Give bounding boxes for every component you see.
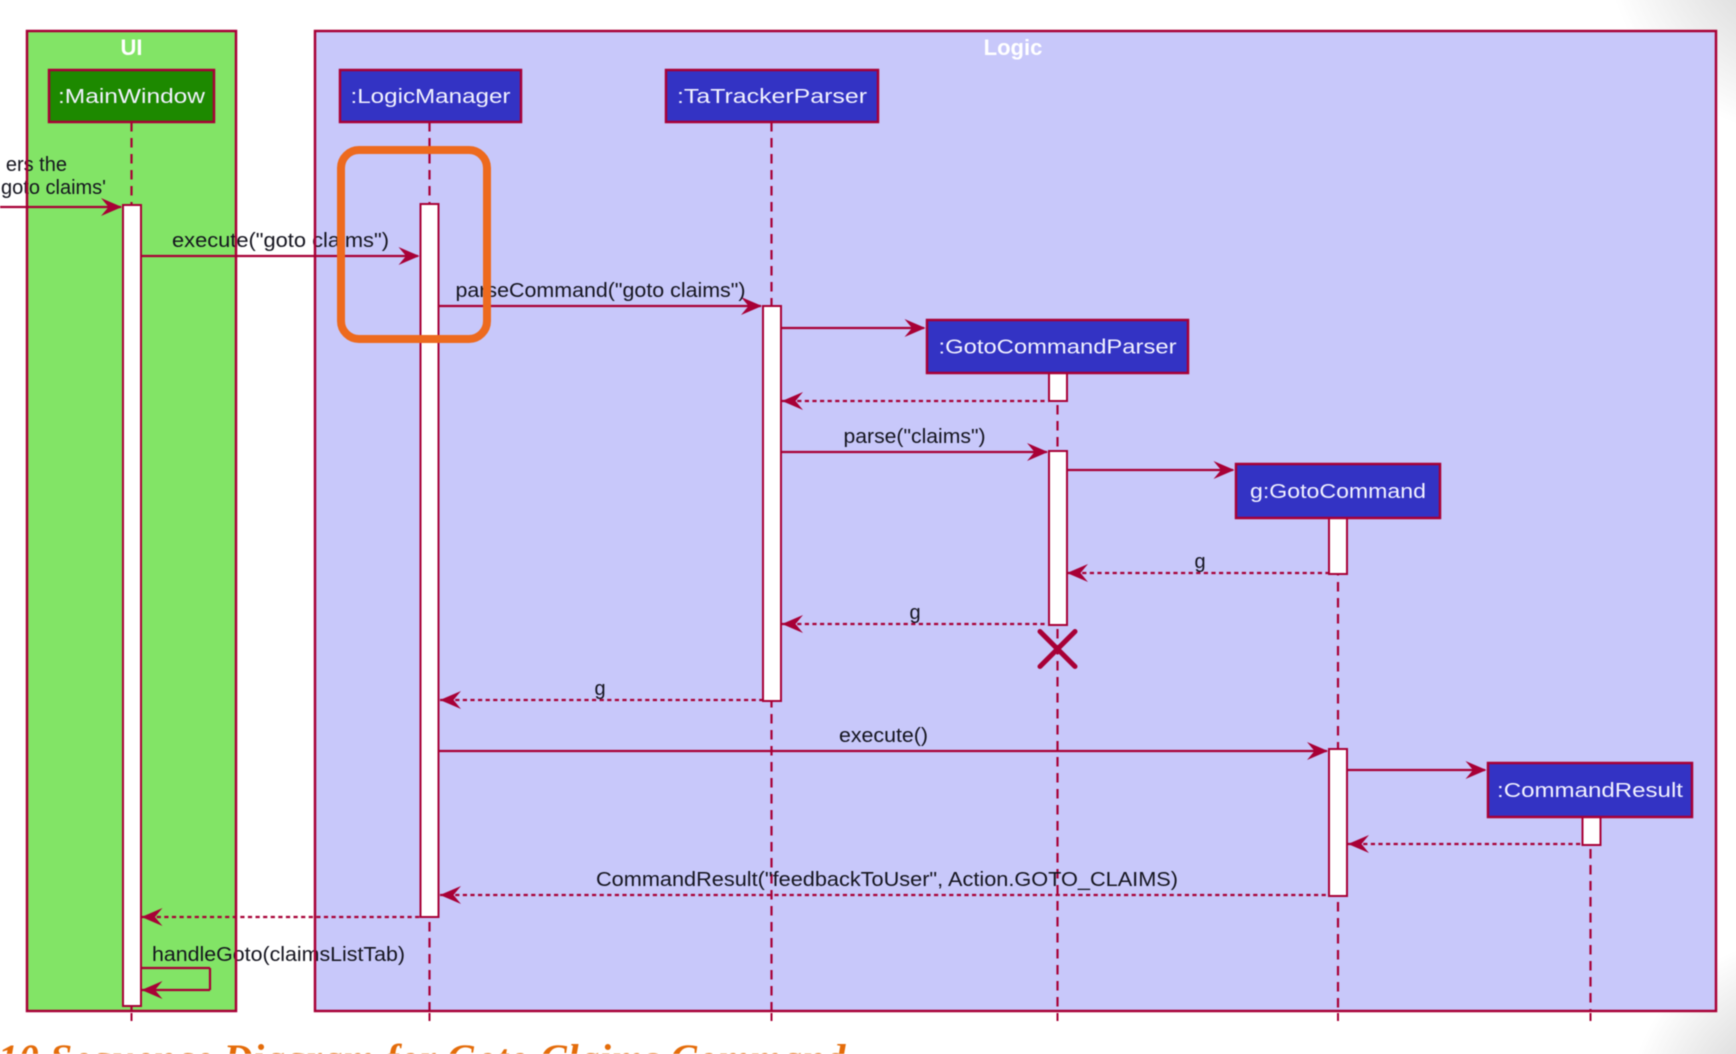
svg-text:g: g: [594, 678, 605, 700]
svg-text::GotoCommandParser: :GotoCommandParser: [939, 337, 1177, 359]
svg-text::MainWindow: :MainWindow: [58, 86, 206, 108]
svg-text::LogicManager: :LogicManager: [351, 86, 511, 108]
svg-text:execute("goto claims"): execute("goto claims"): [172, 230, 389, 252]
svg-text:CommandResult("feedbackToUser": CommandResult("feedbackToUser", Action.G…: [596, 869, 1178, 891]
svg-text::CommandResult: :CommandResult: [1497, 780, 1684, 802]
svg-text:goto claims': goto claims': [1, 177, 106, 199]
svg-text:execute(): execute(): [839, 725, 928, 747]
svg-text:g: g: [909, 602, 920, 624]
svg-text:parseCommand("goto claims"): parseCommand("goto claims"): [456, 280, 746, 302]
svg-text:g: g: [1194, 551, 1205, 573]
svg-text::TaTrackerParser: :TaTrackerParser: [677, 86, 867, 108]
svg-text:10 Sequence Diagram for Goto C: 10 Sequence Diagram for Goto Claims Comm…: [0, 1036, 846, 1054]
svg-text:UI: UI: [121, 35, 143, 60]
svg-text:parse("claims"): parse("claims"): [844, 426, 986, 448]
svg-text:ers the: ers the: [6, 154, 67, 176]
svg-text:Logic: Logic: [984, 35, 1043, 60]
svg-text:g:GotoCommand: g:GotoCommand: [1250, 481, 1426, 503]
svg-text:handleGoto(claimsListTab): handleGoto(claimsListTab): [152, 944, 405, 966]
